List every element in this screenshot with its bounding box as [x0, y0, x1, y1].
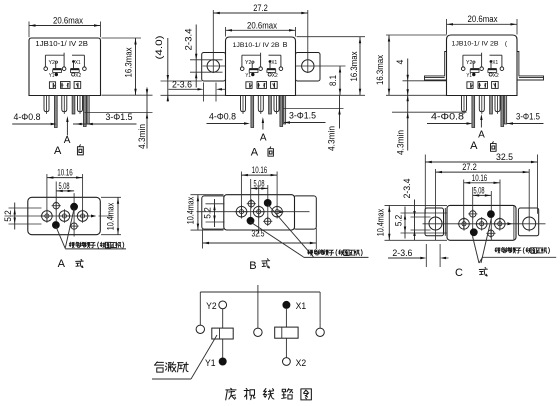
dimension line 32.5 C-shi: [425, 161, 537, 163]
svg-text:10.4max: 10.4max: [105, 202, 115, 230]
note leader 1 A: [56, 227, 65, 249]
svg-text:16.3max: 16.3max: [375, 54, 385, 85]
dimension line 10.16 A: [47, 177, 83, 179]
svg-text:B: B: [249, 260, 256, 272]
terminal X1 schematic: [282, 301, 290, 309]
extension case bottom left B: [161, 94, 226, 96]
view arrow C: [480, 117, 482, 128]
leader line 4-dia0.8 B: [207, 123, 247, 125]
dimension line 5.08 B-shi: [251, 187, 268, 189]
wire top bus: [200, 291, 320, 293]
extension line pin tips A: [85, 112, 153, 114]
leader arrow 4-dia0.8 A: [51, 123, 57, 125]
wire coil-X2: [285, 338, 287, 357]
pin black coil B-shi bottom: [247, 217, 255, 225]
extension body top A: [101, 196, 121, 198]
svg-text:5.08: 5.08: [474, 185, 485, 195]
svg-text:3-Φ1.5: 3-Φ1.5: [289, 111, 316, 121]
relay case C outline: [447, 35, 518, 96]
arrow 4.3min B: [338, 109, 340, 115]
dimension line 10.4max B-shi: [197, 195, 199, 230]
svg-text:1JB10-1/ IV 2B: 1JB10-1/ IV 2B: [35, 41, 88, 48]
svg-text:10.16: 10.16: [472, 173, 488, 183]
note leader 2 A: [65, 209, 74, 249]
svg-text:4: 4: [395, 59, 405, 64]
note leader join C-shi: [479, 257, 483, 263]
centerline tick C-shi: [507, 222, 512, 225]
svg-text:3-Φ1.5: 3-Φ1.5: [106, 112, 133, 122]
extension pin tips C: [392, 111, 467, 113]
view name xiang A: [77, 145, 83, 155]
svg-text:20.6max: 20.6max: [468, 14, 499, 24]
arrow 3.4 top: [195, 54, 197, 60]
centerline tick B-shi: [280, 210, 285, 213]
centerline row C-shi: [423, 223, 546, 225]
leader arrow b: [87, 123, 93, 125]
title di-shi-xian-lu-tu (bottom view circuit diagram): [226, 388, 236, 400]
note leader 1 C-shi: [473, 237, 479, 263]
terminal Y2 schematic: [219, 301, 227, 309]
dimension line 27.2: [213, 12, 307, 14]
column line 10.16 left B-shi: [240, 172, 242, 218]
column line 10.16 right B-shi: [276, 172, 278, 218]
note leader 2 B-shi: [268, 205, 314, 258]
extension hole center right B: [320, 65, 346, 67]
pin big B-shi mid-center: [253, 206, 264, 217]
leader arrow a: [76, 123, 82, 125]
note underline C-shi: [483, 256, 557, 258]
bottom view C body: [447, 205, 516, 240]
pin big C-shi mid-left: [459, 219, 470, 230]
pin big A mid-right: [77, 211, 88, 222]
svg-text:27.2: 27.2: [462, 162, 477, 172]
dimension line 5.2 A: [14, 203, 16, 230]
dimension line 20.6max B: [226, 29, 296, 31]
note leader 1 B-shi: [251, 222, 304, 257]
pin big B-shi mid-left: [236, 206, 247, 217]
extension case bottom right B: [296, 94, 366, 96]
centerline tick A: [91, 215, 96, 218]
svg-text:Y2: Y2: [206, 301, 217, 312]
extension line right 27.2: [307, 10, 309, 73]
pin big C-shi mid-center: [476, 219, 487, 230]
extension line left 20.6 C: [446, 19, 448, 35]
svg-text:10.16: 10.16: [252, 165, 268, 175]
svg-text:A: A: [470, 140, 478, 152]
svg-text:5.08: 5.08: [59, 181, 70, 191]
leader arrow 3-dia1.5 B: [284, 121, 290, 123]
extension body top B-shi: [191, 194, 224, 196]
pin black coil C-shi top: [487, 210, 495, 218]
dimension line 4 and 4.3min C: [407, 59, 409, 151]
note leader 2 C-shi: [481, 219, 491, 264]
view label B shi - shi: [262, 259, 270, 268]
svg-text:10.4max: 10.4max: [376, 208, 386, 236]
svg-text:10.16: 10.16: [57, 168, 73, 178]
bottom view B body: [224, 195, 295, 230]
leader line 3-dia1.5 B: [284, 122, 326, 124]
wire left drop schematic: [199, 292, 201, 325]
svg-text:A: A: [260, 132, 267, 143]
slot edge left C-shi: [425, 244, 427, 267]
pin small cross A bottom-right: [71, 223, 77, 229]
pin small cross C-shi bottom-right: [488, 230, 494, 236]
leader line 3-dia1.5 A: [73, 123, 137, 125]
pin big A mid-left: [42, 211, 53, 222]
extension case top C: [386, 34, 447, 36]
note underline A: [65, 248, 126, 250]
fold line right C-shi: [513, 206, 515, 240]
dimension line 27.2 C-shi: [436, 171, 530, 173]
dimension line 10.16 B-shi: [241, 174, 277, 176]
note underline hou-ji-li: [152, 378, 191, 380]
arrow 2-3.6 right B: [216, 88, 222, 90]
svg-text:A: A: [54, 145, 62, 157]
contact pin left schematic: [196, 325, 204, 333]
dimension line 4.0: [167, 38, 169, 102]
relay case A outline: [29, 38, 101, 96]
svg-text:A: A: [251, 147, 259, 159]
mounting flange right B: [296, 53, 321, 82]
svg-text:X2: X2: [296, 358, 307, 369]
dimension line 5.2 B-shi: [214, 199, 216, 227]
extension body bottom B-shi: [191, 229, 224, 231]
extension 32.5 right C-shi: [537, 155, 539, 214]
dimension line 8.1: [339, 66, 341, 95]
svg-text:5.2: 5.2: [3, 210, 13, 222]
note hou-ji-li (post excitation): [154, 362, 163, 372]
wire X1-coil: [285, 309, 287, 327]
svg-text:B: B: [283, 40, 288, 49]
extension line left 27.2: [212, 10, 214, 73]
extension 27.2 right C-shi: [528, 169, 530, 232]
pin big C-shi mid-right: [495, 219, 506, 230]
svg-text:A: A: [478, 130, 485, 141]
wire mid drop schematic: [257, 285, 259, 328]
note text B-shi (green insulator coil positive): [308, 250, 313, 256]
slot edge right C-shi: [439, 244, 441, 267]
arrow 4 top: [407, 75, 409, 81]
column line 5.08 left C-shi: [472, 187, 474, 238]
svg-text:X1: X1: [296, 301, 307, 312]
centerline row A: [5, 215, 96, 217]
svg-text:5.2: 5.2: [394, 215, 404, 227]
column line 5.08 left: [55, 182, 57, 229]
svg-text:2-3.4: 2-3.4: [402, 178, 412, 198]
arrow 4.3min top C: [407, 89, 409, 95]
ear hole left C-shi: [429, 217, 442, 230]
svg-text:Y1: Y1: [205, 358, 216, 369]
pin small cross A top-left: [53, 203, 59, 209]
extension line right 20.6 C: [516, 19, 518, 35]
view label A shi - shi: [76, 259, 84, 267]
extension line right 20.6: [100, 22, 102, 38]
svg-text:(4.0): (4.0): [154, 35, 164, 59]
dimension line 10.4max C-shi: [388, 205, 390, 240]
ear right C-shi: [518, 208, 538, 236]
svg-text:8.1: 8.1: [328, 75, 338, 86]
extension wing left B-shi: [202, 229, 204, 248]
dimension line 4.3min B: [339, 95, 341, 128]
arrow 3.4 bottom: [195, 72, 197, 78]
arrow 4 bottom: [407, 95, 409, 101]
arrow 2-3.6 left C-shi: [420, 257, 426, 259]
extension 32.5 left C-shi: [424, 155, 426, 214]
extension hole bottom C-shi: [411, 229, 431, 231]
dimension line 5.08 C-shi: [473, 194, 492, 196]
extension line left 20.6: [28, 22, 30, 38]
arrow 2-3.6 right C-shi: [440, 257, 446, 259]
column line 5.08 right C-shi: [490, 191, 492, 241]
svg-text:1JB10-1/ IV 2B: 1JB10-1/ IV 2B: [452, 41, 499, 48]
svg-text:4.3min: 4.3min: [327, 126, 337, 151]
extension row bottom C-shi: [401, 232, 448, 234]
svg-text:4-Φ0.8: 4-Φ0.8: [14, 112, 41, 122]
extension body top C-shi: [385, 204, 448, 206]
dimension line 2-3.4 C-shi: [414, 200, 416, 241]
fold line left C-shi: [444, 208, 446, 236]
extension wing right B-shi: [315, 228, 317, 249]
extension line bottom 16.3 / case bottom: [102, 94, 153, 96]
note leader hou-ji-li: [191, 335, 217, 379]
leader line 2-3.6 C-shi: [388, 257, 422, 259]
pin black coil B-shi top: [264, 199, 272, 207]
dimension line 20.6max C: [447, 23, 518, 25]
extension 27.2 left C-shi: [435, 169, 437, 241]
extension line top 16.3: [102, 37, 142, 39]
dimension line 5.08 A: [56, 190, 74, 192]
relay C internal schematic: [461, 53, 506, 128]
svg-text:5.2: 5.2: [203, 207, 213, 219]
wire Y2-coil: [222, 309, 224, 328]
coil 2 divider: [281, 327, 283, 338]
extension line right 20.6 B: [295, 27, 297, 37]
arrow 4.3min bottom C: [407, 112, 409, 118]
dimension line 2-3.4 B: [195, 25, 197, 88]
leader arrow 4-dia0.8 B: [244, 122, 250, 124]
leader line 4-dia0.8 A: [12, 123, 52, 125]
slot edge left B: [203, 83, 205, 102]
dimension line 20.6max: [29, 25, 101, 27]
contact pin mid schematic: [254, 328, 262, 336]
extension body bottom C-shi: [385, 239, 448, 241]
dimension line 32.5 B-shi: [203, 242, 317, 244]
wing right B-shi: [293, 196, 316, 229]
svg-text:A: A: [64, 135, 71, 146]
svg-text:2-3.6: 2-3.6: [172, 80, 192, 90]
relay A internal schematic: [44, 53, 89, 128]
extension case bottom C: [386, 94, 447, 96]
extension hole top C-shi: [411, 216, 431, 218]
svg-text:20.6max: 20.6max: [247, 20, 278, 30]
svg-text:20.6max: 20.6max: [53, 16, 84, 26]
leader line 3-dia1.5 C: [507, 123, 544, 125]
relay B internal schematic: [240, 53, 285, 128]
bottom view A body: [28, 197, 101, 234]
arrow 4.0 bottom: [167, 95, 169, 101]
dimension line 16.3max C: [388, 35, 390, 95]
svg-text:16.3max: 16.3max: [124, 47, 134, 78]
column line 5.08 right: [73, 193, 75, 236]
pin black coil A top: [70, 203, 78, 211]
svg-text:4-Φ0.8: 4-Φ0.8: [431, 112, 464, 122]
pin big A mid-center: [59, 211, 70, 222]
dimension line 16.3max B: [359, 37, 361, 96]
leader arrow 3-dia1.5 C: [507, 122, 513, 124]
extension row top B-shi: [206, 203, 225, 205]
column line 10.16 right C-shi: [499, 180, 501, 230]
pin small cross B-shi top-left: [248, 201, 254, 207]
relay case B outline: [226, 37, 296, 96]
pin small cross B-shi bottom-right: [265, 218, 271, 224]
leader line 2-3.6 B: [169, 88, 201, 90]
centerline row B-shi: [197, 211, 310, 213]
svg-text:16.3max: 16.3max: [349, 51, 359, 82]
note underline B-shi: [304, 256, 369, 258]
mounting bracket right C: [517, 52, 544, 81]
dimension line 4.3min A: [146, 88, 148, 149]
centerline flange hole left B: [203, 65, 226, 67]
column line 10.16 left: [46, 174, 48, 222]
column line 5.08 right B-shi: [267, 185, 269, 225]
extension flange bottom B: [161, 80, 202, 82]
ear hole right C-shi: [523, 217, 536, 230]
wire right drop schematic: [319, 292, 321, 328]
extension hole bottom B: [190, 71, 223, 73]
coil 1 divider: [219, 328, 221, 339]
arrow 4.3 bottom: [146, 113, 148, 119]
leader line 4-dia0.8 C: [427, 123, 469, 125]
extension case top right B: [297, 36, 366, 38]
svg-text:4.3min: 4.3min: [395, 130, 405, 155]
view name xiang B: [268, 147, 273, 156]
extension row top A: [9, 207, 42, 209]
svg-text:32.5: 32.5: [496, 152, 513, 162]
wire coil-Y1: [222, 339, 224, 358]
terminal X2 schematic: [283, 358, 291, 366]
coil 1 box: [212, 328, 233, 339]
arrow 4.0 top: [167, 75, 169, 81]
dimension line 10.16 C-shi: [464, 182, 500, 184]
svg-text:4-Φ0.8: 4-Φ0.8: [209, 112, 236, 122]
extension body bottom A: [101, 234, 121, 236]
dimension line 5.2 C-shi: [404, 207, 406, 239]
note text A (green insulator coil positive): [69, 242, 74, 248]
slot edge right B: [215, 83, 217, 102]
svg-text:A: A: [58, 258, 66, 270]
extension row bottom B-shi: [206, 221, 225, 223]
extension row bottom A: [9, 223, 42, 225]
flange hole right B: [302, 60, 314, 72]
mounting bracket left C: [425, 52, 447, 81]
svg-text:3-Φ1.5: 3-Φ1.5: [516, 112, 540, 122]
centerline flange hole right B: [296, 65, 321, 67]
pin big B-shi mid-right: [272, 206, 283, 217]
extension bracket foot C: [403, 80, 447, 82]
pin black coil C-shi bottom: [470, 228, 478, 236]
svg-text:27.2: 27.2: [253, 3, 268, 13]
svg-text:2-3.4: 2-3.4: [184, 28, 194, 50]
contact pin right schematic: [316, 328, 324, 336]
svg-text:C: C: [455, 267, 463, 279]
note text C-shi (green insulator coil positive): [495, 248, 500, 254]
dimension line 16.3max: [135, 38, 137, 95]
svg-text:10.4max: 10.4max: [186, 196, 196, 224]
dimension line 10.4max A: [117, 197, 119, 234]
arrow 2-3.6 left B: [198, 88, 204, 90]
leader arrow 4-dia0.8 C: [467, 122, 473, 124]
view arrow A: [66, 119, 68, 136]
column line 10.16 left C-shi: [463, 180, 465, 230]
pin small cross C-shi top-left: [470, 211, 476, 217]
flange hole left B: [207, 60, 219, 72]
extension row top C-shi: [401, 212, 448, 214]
svg-text:4.3min: 4.3min: [137, 124, 147, 149]
column line center B-shi: [258, 185, 260, 234]
view name xiang C: [491, 142, 497, 152]
extension pin tips B: [283, 108, 344, 110]
view label C shi - shi: [479, 267, 487, 276]
svg-text:2-3.6: 2-3.6: [392, 248, 412, 258]
svg-text:1JB10-1/ IV 2B: 1JB10-1/ IV 2B: [233, 42, 280, 49]
pin black coil A bottom: [52, 221, 60, 229]
arrow 4.3 top: [146, 89, 148, 95]
column line 5.08 left B-shi: [250, 179, 252, 225]
wing left B-shi: [202, 196, 225, 229]
extension hole top B: [190, 59, 223, 61]
terminal Y1 schematic: [219, 358, 227, 366]
view arrow B: [262, 120, 264, 130]
column line 10.16 right: [82, 174, 84, 222]
extension line left 20.6 B: [225, 27, 227, 37]
coil 2 box: [275, 327, 298, 338]
mounting flange left B: [202, 53, 226, 82]
ear left C-shi: [425, 208, 444, 236]
